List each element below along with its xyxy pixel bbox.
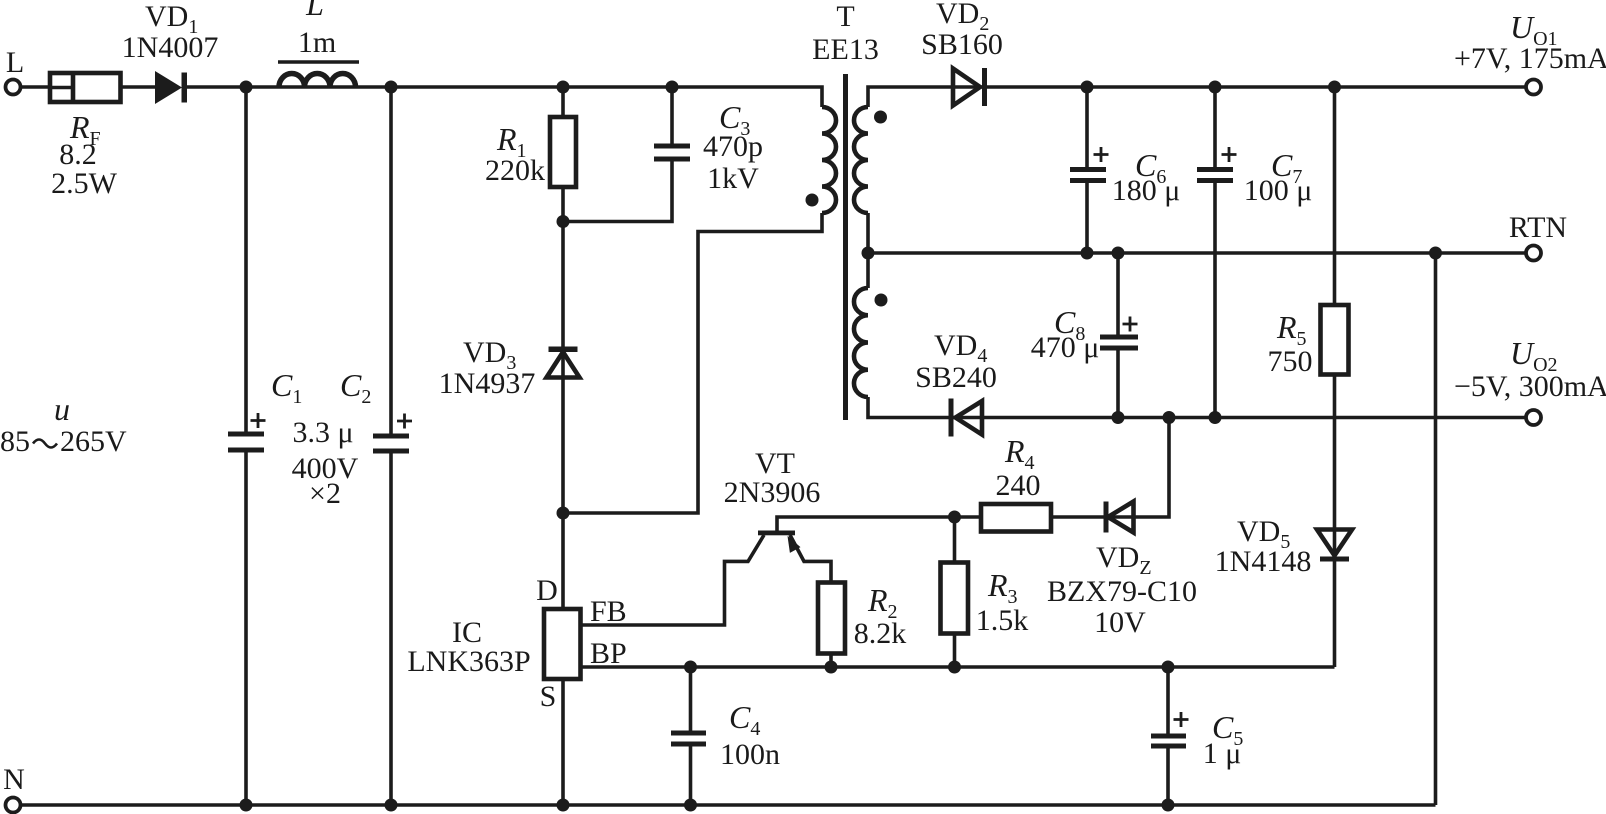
svg-text:2N3906: 2N3906 [724, 476, 821, 509]
svg-text:L: L [305, 0, 324, 22]
svg-text:3.3 μ: 3.3 μ [292, 416, 353, 449]
svg-text:1N4007: 1N4007 [122, 31, 219, 64]
svg-text:10V: 10V [1094, 606, 1146, 639]
svg-text:1kV: 1kV [707, 162, 759, 195]
svg-text:S: S [540, 680, 557, 713]
svg-text:220k: 220k [485, 154, 545, 187]
svg-text:×2: ×2 [309, 477, 341, 510]
svg-text:D: D [536, 574, 558, 607]
svg-text:SB160: SB160 [921, 28, 1003, 61]
svg-text:1N4937: 1N4937 [439, 367, 536, 400]
svg-text:LNK363P: LNK363P [407, 645, 530, 678]
svg-text:1 μ: 1 μ [1203, 737, 1242, 770]
svg-text:1m: 1m [298, 26, 336, 59]
svg-text:240: 240 [996, 469, 1041, 502]
svg-text:470 μ: 470 μ [1031, 331, 1100, 364]
svg-text:SB240: SB240 [915, 361, 997, 394]
svg-text:FB: FB [590, 595, 627, 628]
svg-text:BZX79-C10: BZX79-C10 [1047, 575, 1197, 608]
svg-text:85: 85 [0, 425, 30, 458]
svg-text:100 μ: 100 μ [1244, 174, 1313, 207]
svg-text:265V: 265V [60, 425, 127, 458]
svg-text:180 μ: 180 μ [1112, 174, 1181, 207]
svg-text:1.5k: 1.5k [976, 604, 1029, 637]
svg-text:2.5W: 2.5W [51, 167, 118, 200]
svg-text:RTN: RTN [1509, 211, 1567, 244]
svg-text:470p: 470p [703, 130, 763, 163]
svg-text:L: L [6, 46, 24, 79]
svg-text:T: T [836, 0, 854, 33]
svg-text:BP: BP [590, 637, 627, 670]
svg-text:750: 750 [1268, 345, 1313, 378]
svg-text:1N4148: 1N4148 [1215, 545, 1312, 578]
svg-text:+7V, 175mA: +7V, 175mA [1454, 42, 1606, 75]
svg-text:−5V, 300mA: −5V, 300mA [1454, 370, 1606, 403]
svg-text:100n: 100n [720, 738, 780, 771]
svg-text:N: N [3, 763, 25, 796]
svg-text:8.2k: 8.2k [854, 617, 907, 650]
svg-text:u: u [54, 391, 70, 427]
svg-text:EE13: EE13 [812, 33, 879, 66]
